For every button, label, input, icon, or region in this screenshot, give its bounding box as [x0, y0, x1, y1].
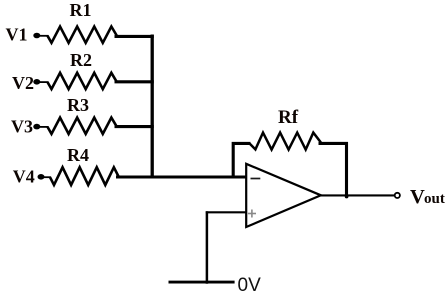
op-amp U1 [246, 164, 321, 227]
svg-text:out: out [424, 191, 445, 207]
svg-text:Rf: Rf [278, 107, 299, 128]
wire R1 to bus [115, 35, 154, 38]
node V2 [12, 73, 49, 93]
node V4 [13, 166, 51, 186]
node Vout terminal [395, 193, 400, 198]
svg-text:V4: V4 [13, 166, 35, 186]
resistor R1 [48, 0, 118, 43]
resistor R3 [48, 95, 118, 134]
wire Rf left lead + vertical to inverting node [233, 143, 250, 177]
wire R3 to bus [115, 125, 154, 128]
svg-text:V2: V2 [12, 73, 34, 93]
wire op-amp output [321, 194, 395, 196]
junction output/Rf [345, 195, 349, 199]
wire non-inverting input [206, 211, 247, 213]
node V3 [11, 116, 49, 136]
resistor Rf [250, 107, 321, 150]
wire R2 to bus [115, 80, 154, 83]
svg-text:V3: V3 [11, 116, 33, 136]
svg-text:V1: V1 [6, 25, 28, 45]
wire Rf right lead + vertical to output node [319, 143, 347, 195]
resistor R4 [50, 145, 119, 185]
resistor R2 [48, 50, 118, 89]
node V1 [6, 25, 49, 45]
node Vout label [410, 186, 445, 208]
svg-text:0V: 0V [238, 275, 262, 296]
svg-text:R1: R1 [70, 0, 92, 20]
ground (0V) [169, 211, 262, 296]
svg-text:R3: R3 [67, 95, 89, 115]
svg-text:V: V [410, 186, 425, 208]
wire R4 / inverting input (to op-amp) [116, 175, 247, 178]
summing bus vertical wire [151, 35, 154, 179]
svg-text:R4: R4 [67, 145, 89, 165]
svg-text:R2: R2 [70, 50, 92, 70]
